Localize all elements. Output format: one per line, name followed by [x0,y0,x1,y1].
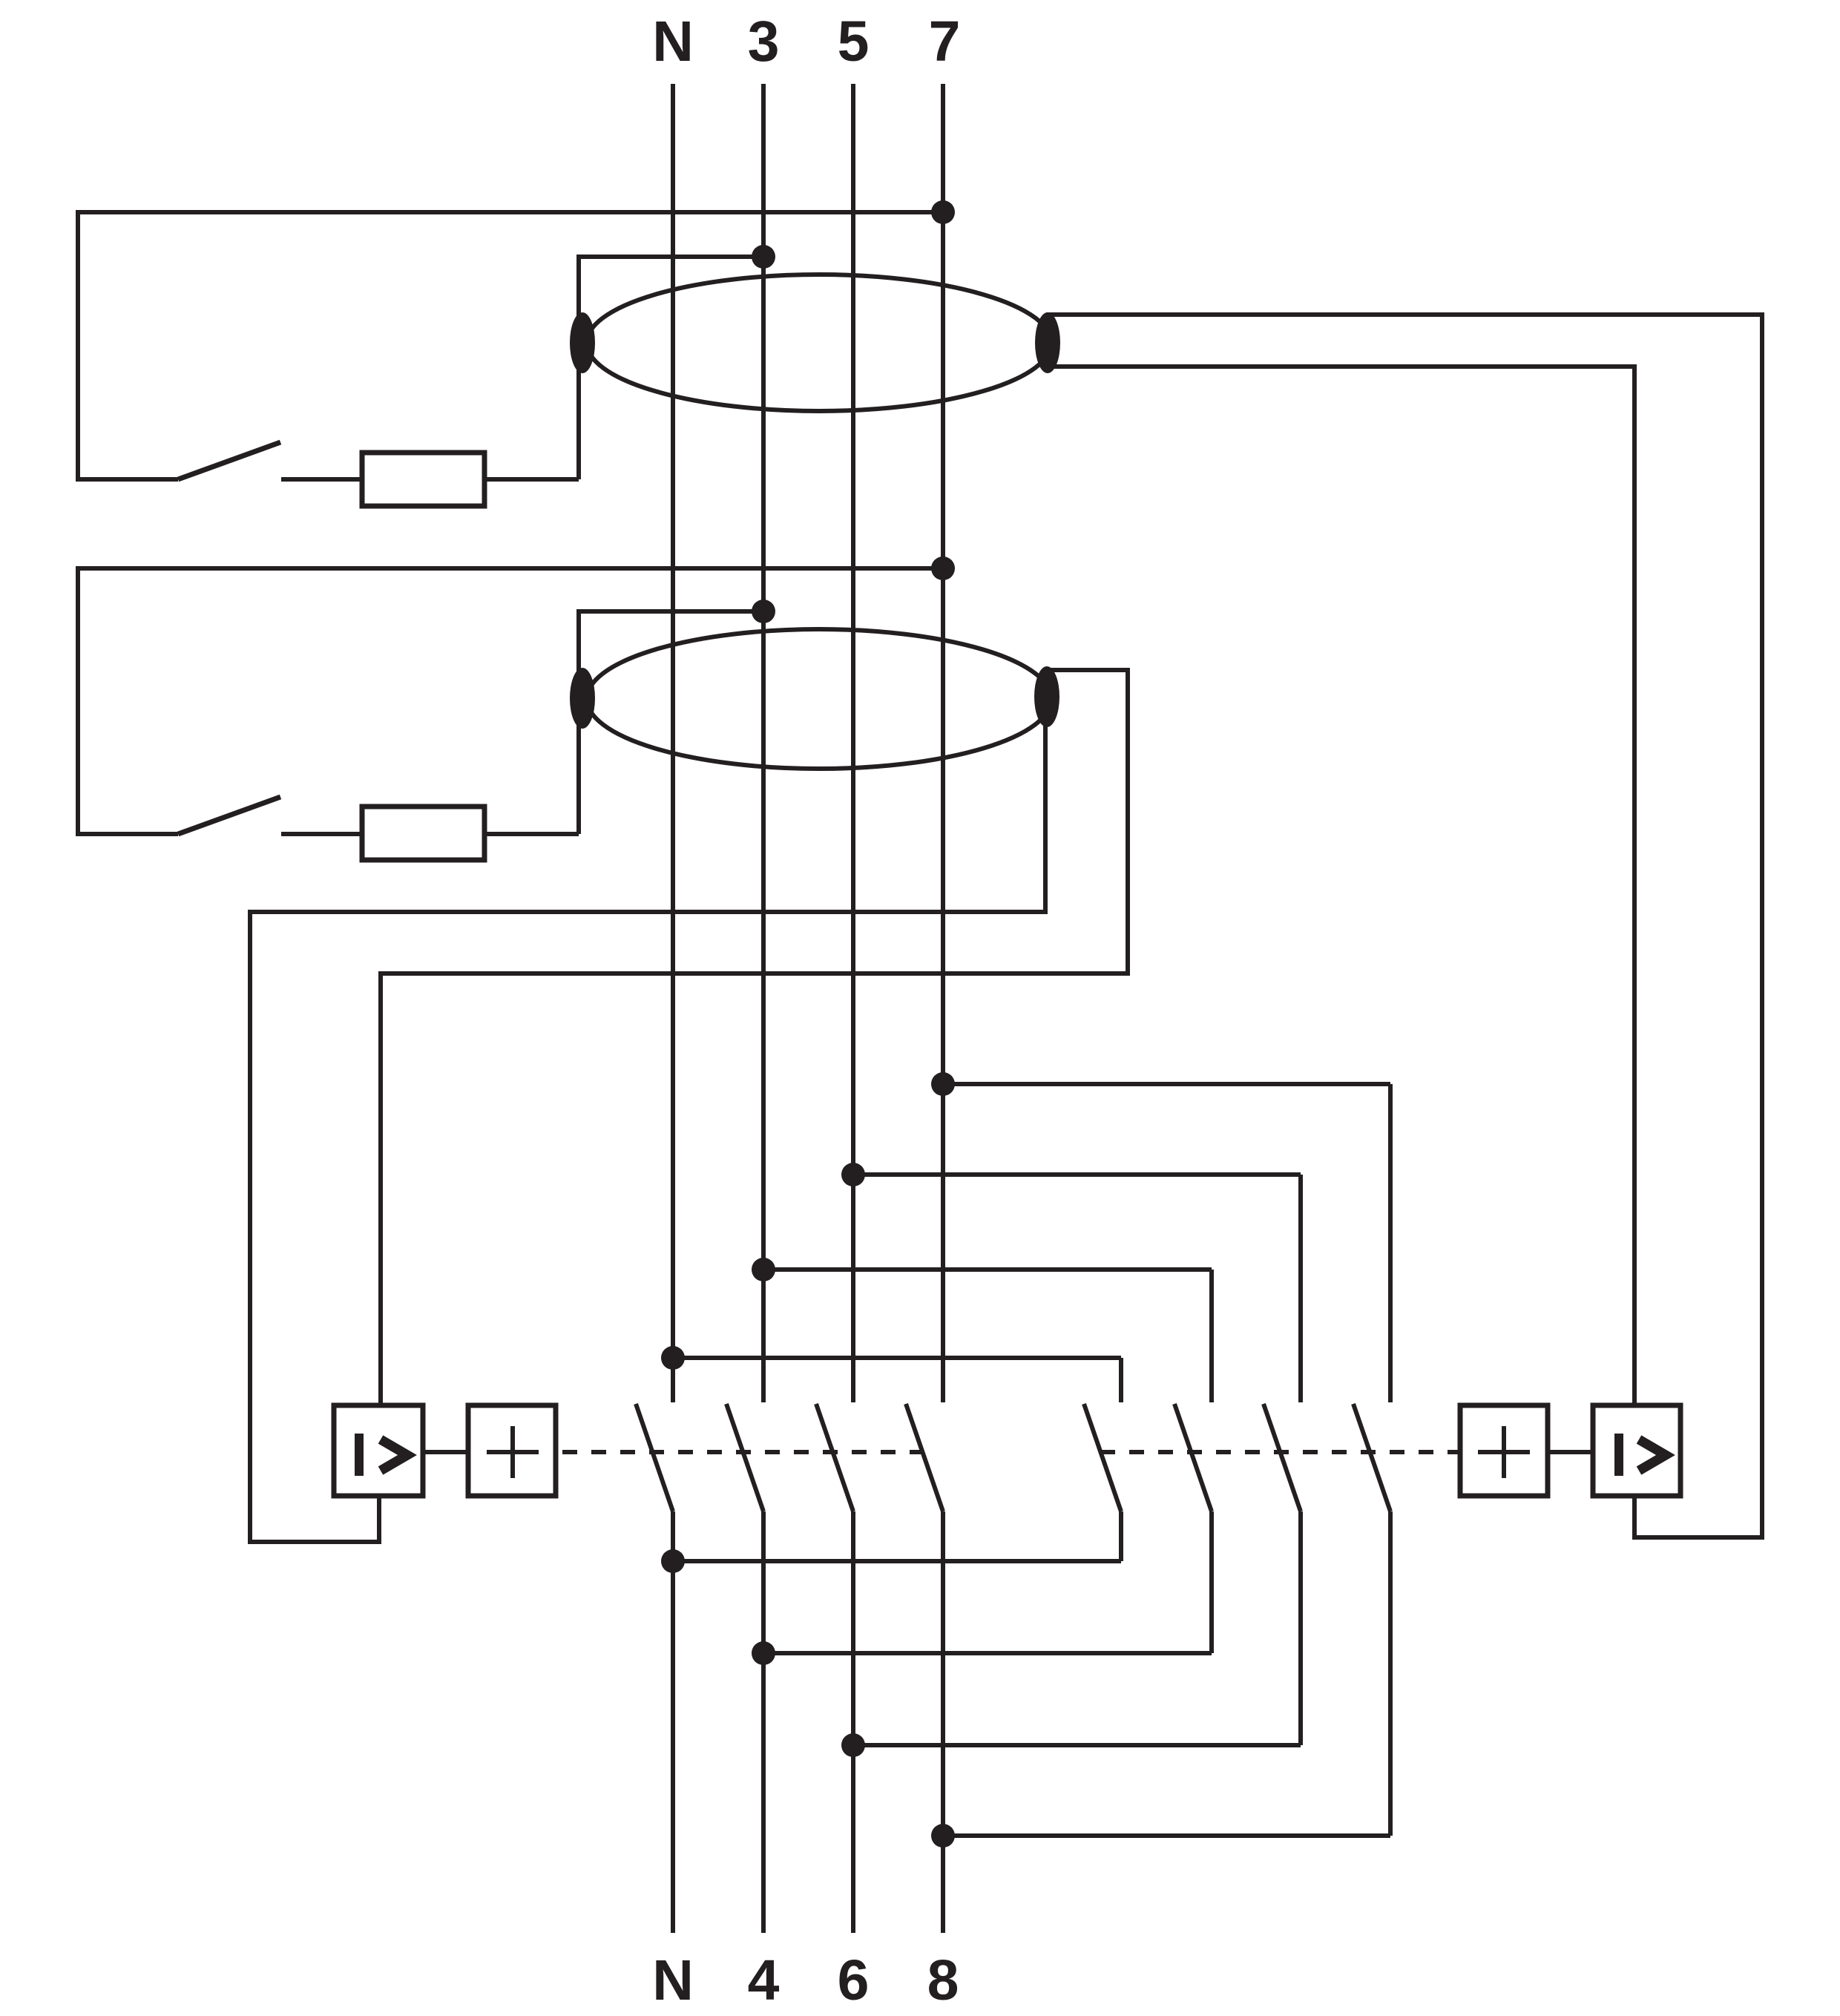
svg-text:4: 4 [748,1948,780,2012]
svg-text:N: N [652,1948,694,2012]
svg-text:8: 8 [927,1948,959,2012]
svg-text:7: 7 [929,10,961,73]
svg-text:6: 6 [838,1948,870,2012]
svg-text:N: N [652,10,694,73]
svg-text:5: 5 [838,10,870,73]
svg-text:3: 3 [748,10,780,73]
